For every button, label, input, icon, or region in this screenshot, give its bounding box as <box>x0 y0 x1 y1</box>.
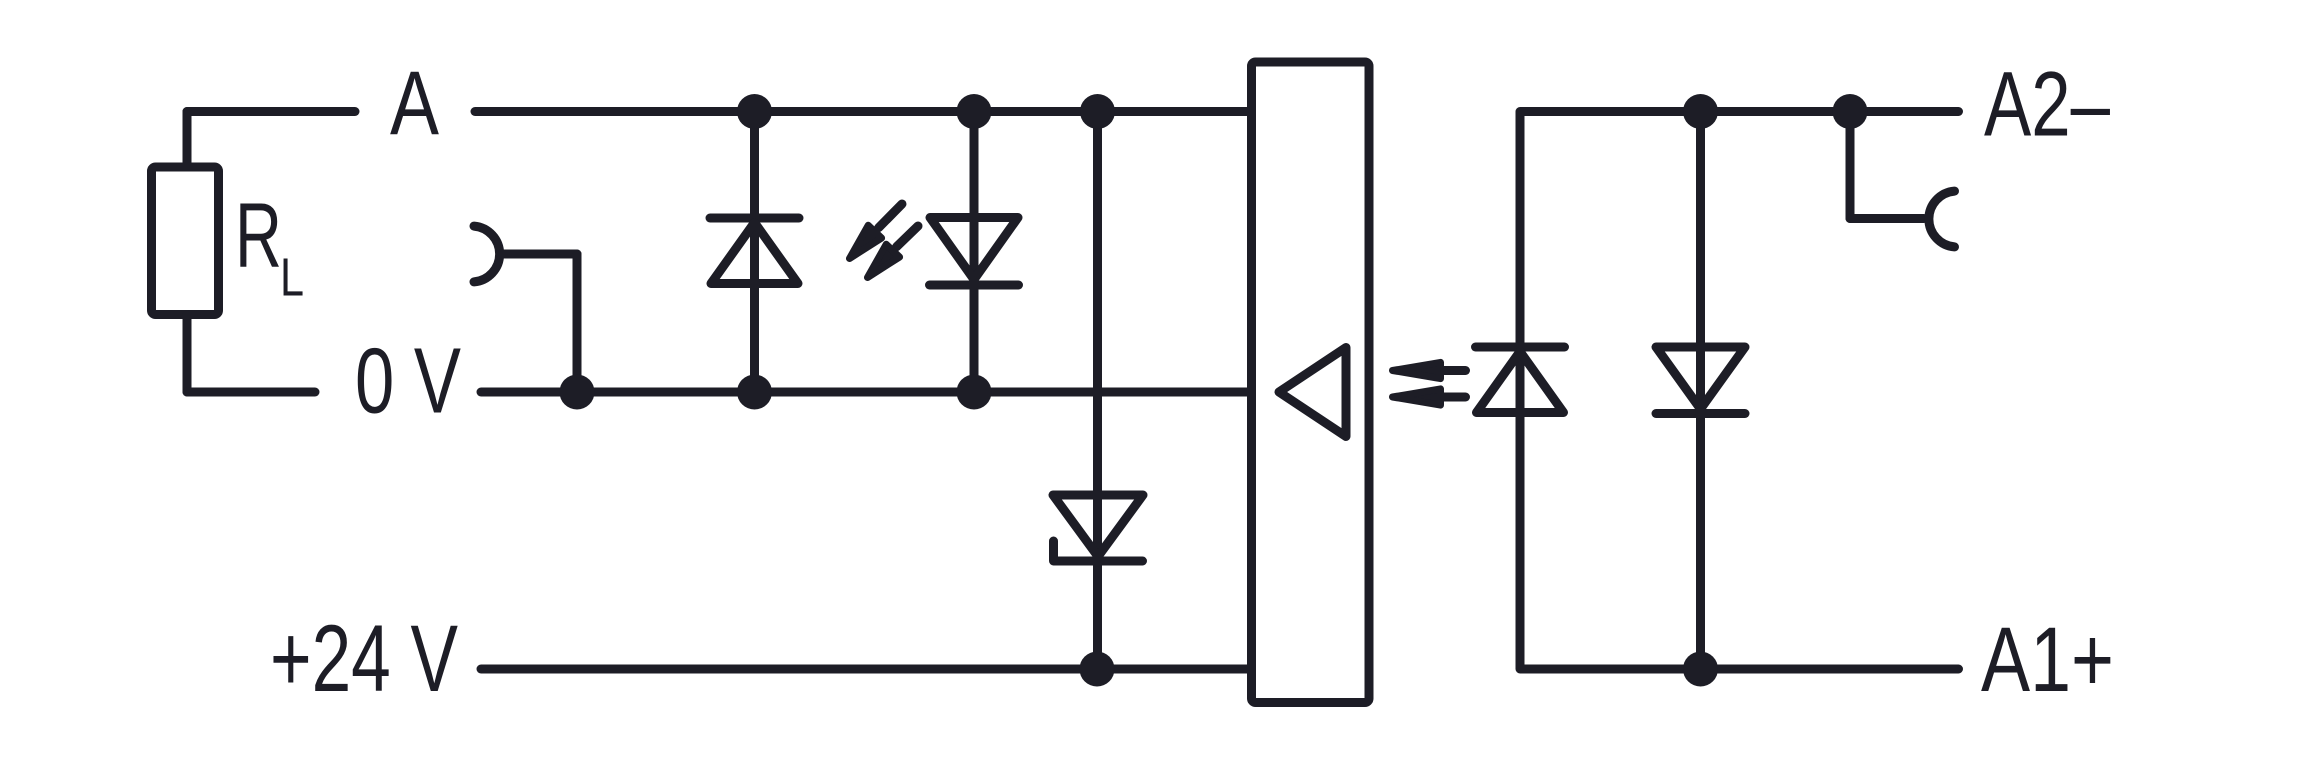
junction dot A2 rail 2 <box>1833 94 1868 129</box>
junction dot A2 rail 1 <box>1683 94 1718 129</box>
junction dot top rail 3 <box>1080 94 1115 129</box>
light arrow 2 head <box>1393 389 1441 405</box>
junction dot +24V rail <box>1080 652 1115 687</box>
wire: socket left vertical drop to 0V <box>573 254 582 392</box>
right diode V4 cathode bar <box>1476 343 1565 352</box>
light arrow 1 tail <box>1444 366 1466 375</box>
LED emission arrow 1 tail <box>879 204 902 228</box>
wire: 0V rail <box>481 388 1252 397</box>
right diode V4 triangle <box>1477 352 1564 413</box>
wire: top-left from resistor corner to node A label <box>187 107 355 116</box>
LED emission arrow 2 head <box>868 244 900 277</box>
junction dot top rail 2 <box>957 94 992 129</box>
svg-text:L: L <box>280 249 304 308</box>
zener diode V3 triangle <box>1053 495 1143 557</box>
wire: socket right vertical from A2 rail <box>1846 112 1855 219</box>
diode V1 triangle <box>711 223 798 284</box>
svg-text:+24 V: +24 V <box>270 606 458 712</box>
wire: socket left lead <box>500 250 577 259</box>
junction dot A1 rail <box>1683 652 1718 687</box>
light arrow 2 tail <box>1444 393 1466 402</box>
diode V1 cathode bar <box>710 214 799 223</box>
right diode V5 cathode bar <box>1656 409 1745 418</box>
diode V1 vertical wire <box>750 112 759 393</box>
svg-text:A: A <box>390 54 439 155</box>
optocoupler box U1 <box>1252 62 1370 703</box>
wire: 0V left segment <box>187 388 315 397</box>
resistor R_L top lead wire <box>183 112 192 168</box>
junction dot top rail 1 <box>737 94 772 129</box>
LED V2 triangle <box>930 218 1018 280</box>
zener diode V3 cathode bar with bent end <box>1054 541 1143 561</box>
svg-text:A2–: A2– <box>1984 54 2111 156</box>
LED emission arrow 2 tail <box>897 226 918 247</box>
junction dot 0V rail 2 <box>737 375 772 410</box>
socket contact right (half-circle) <box>1929 191 1955 247</box>
socket contact left (half-circle) <box>474 226 500 282</box>
resistor R_L body <box>152 167 219 315</box>
wire: A2 rail with corners down to A1 rail <box>1520 112 1959 670</box>
svg-text:A1+: A1+ <box>1981 609 2114 711</box>
wire: socket right lead <box>1850 214 1924 223</box>
svg-text:R: R <box>235 185 282 287</box>
light arrow 1 head <box>1393 362 1441 378</box>
right diode V5 triangle <box>1656 347 1745 409</box>
wire: +24V rail <box>481 665 1252 674</box>
LED V2 vertical wire <box>970 112 979 393</box>
junction dot 0V rail 3 <box>957 375 992 410</box>
LED V2 cathode bar <box>930 281 1019 290</box>
resistor R_L bottom lead wire <box>183 315 192 393</box>
zener diode V3 vertical wire <box>1093 112 1102 670</box>
svg-text:0 V: 0 V <box>355 329 461 433</box>
wire: top A rail <box>475 107 1252 116</box>
junction dot 0V rail 1 <box>560 375 595 410</box>
optocoupler receiver triangle <box>1279 348 1346 437</box>
right diode V5 vertical wire <box>1696 112 1705 670</box>
LED emission arrow 1 head <box>850 225 882 258</box>
